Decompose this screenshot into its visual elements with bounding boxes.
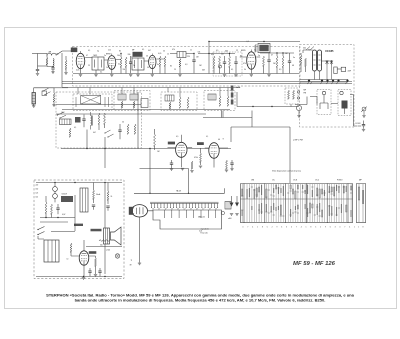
T1 ground wire xyxy=(95,70,97,74)
svg-text:47: 47 xyxy=(86,55,88,57)
V5 left parts xyxy=(300,55,302,64)
capacitor C1 xyxy=(51,68,54,69)
jack arrow 1 xyxy=(231,196,233,205)
svg-text:3: 3 xyxy=(286,227,287,229)
resistor R21b xyxy=(104,113,106,124)
svg-text:al giradischi: al giradischi xyxy=(201,229,210,231)
svg-text:1k: 1k xyxy=(167,54,169,56)
svg-text:0,1: 0,1 xyxy=(206,136,208,138)
svg-text:47k: 47k xyxy=(172,49,175,51)
resistor R31 xyxy=(51,204,53,214)
power amp dashed enclosure xyxy=(34,180,124,279)
V7 wires xyxy=(205,148,228,168)
coil L5 xyxy=(177,52,186,58)
svg-text:82: 82 xyxy=(240,56,242,58)
switch contacts S3 xyxy=(105,130,114,137)
resistor R22 xyxy=(127,124,129,134)
svg-text:39: 39 xyxy=(130,265,132,267)
svg-text:56: 56 xyxy=(146,56,148,58)
coil pack box D xyxy=(204,91,235,111)
dial lamp xyxy=(115,254,119,258)
filter cap C32 xyxy=(88,271,91,272)
bottom rail wire xyxy=(36,276,122,278)
svg-text:0,1: 0,1 xyxy=(247,41,249,43)
bus wire 2 xyxy=(62,81,352,83)
detector circles xyxy=(297,91,299,93)
rf choke L7 xyxy=(341,67,346,71)
svg-text:8: 8 xyxy=(310,227,311,229)
stage link wire xyxy=(73,51,294,61)
tube V6 EABC80 xyxy=(176,142,187,157)
svg-text:OC2: OC2 xyxy=(315,180,319,182)
svg-text:UCC85: UCC85 xyxy=(325,49,334,53)
svg-text:4k7: 4k7 xyxy=(93,132,96,134)
resistor R11 xyxy=(213,56,215,67)
eye dark cap xyxy=(129,207,133,215)
ground xyxy=(79,75,82,77)
vertical feeds to lower section xyxy=(140,149,189,194)
svg-text:4: 4 xyxy=(349,227,350,229)
svg-text:470k: 470k xyxy=(194,157,198,159)
coil L1 xyxy=(53,59,54,67)
svg-text:a600: a600 xyxy=(228,218,232,220)
coupling box xyxy=(334,67,337,74)
filter cap C33 xyxy=(98,271,101,272)
switch S2 xyxy=(58,112,67,118)
IF transformer T2 xyxy=(132,58,144,70)
wire rails xyxy=(40,218,75,223)
resistor R25 xyxy=(154,134,156,146)
ratio detector dashed box xyxy=(285,88,298,104)
svg-text:7: 7 xyxy=(296,227,297,229)
ferrite coil L2 xyxy=(32,93,35,105)
ground xyxy=(181,168,184,170)
dropper resistor Rd1 xyxy=(93,190,95,199)
tube top stubs xyxy=(81,50,252,56)
output tube V8 xyxy=(79,251,89,265)
svg-text:10: 10 xyxy=(67,259,69,261)
tube V3 xyxy=(149,55,156,68)
trimmer C22 xyxy=(82,119,85,120)
MF auxiliary box xyxy=(357,184,366,223)
svg-text:4: 4 xyxy=(252,227,253,229)
FM ground bus wire xyxy=(300,79,348,81)
svg-text:22: 22 xyxy=(236,50,238,52)
resistor R30 xyxy=(45,202,47,213)
svg-text:0,5: 0,5 xyxy=(176,136,178,138)
wire xyxy=(47,65,53,68)
tube V5 UCC85 twin triode xyxy=(313,50,317,71)
loudspeaker xyxy=(111,227,122,245)
svg-text:Viste disposizioni con lato: Viste disposizioni con lato di presa xyxy=(272,170,302,173)
svg-text:1: 1 xyxy=(306,227,307,229)
ground xyxy=(138,263,141,265)
svg-text:2k: 2k xyxy=(111,196,113,198)
resistor R26 xyxy=(191,161,193,169)
svg-text:47k: 47k xyxy=(211,54,214,56)
svg-text:3: 3 xyxy=(335,227,336,229)
svg-text:6: 6 xyxy=(281,227,282,229)
vertical feeds xyxy=(87,92,138,168)
wire to MF output xyxy=(337,68,341,70)
tube V7 EM80 label xyxy=(197,142,204,145)
IF output coil dark xyxy=(342,101,348,109)
psu dark label row xyxy=(74,224,83,226)
transformer wires xyxy=(38,232,75,240)
svg-text:9: 9 xyxy=(325,227,326,229)
FM coil box 2 xyxy=(338,90,351,116)
svg-text:0,5: 0,5 xyxy=(216,50,218,52)
svg-text:8: 8 xyxy=(363,227,364,229)
svg-text:0,05: 0,05 xyxy=(199,231,202,233)
oscillator coil xyxy=(91,116,92,126)
input tuned circuit xyxy=(46,56,48,58)
screen divider wire xyxy=(208,42,210,74)
svg-text:82: 82 xyxy=(119,51,121,53)
electrolytic capacitor pair xyxy=(53,187,58,192)
svg-text:a MF e FM: a MF e FM xyxy=(293,140,303,142)
svg-text:06: 06 xyxy=(218,139,220,141)
wafer inner contacts xyxy=(165,210,216,218)
svg-text:110: 110 xyxy=(36,197,39,199)
B+ bus wire xyxy=(73,73,299,75)
capacitor C5 xyxy=(129,62,132,63)
eye wires xyxy=(140,211,154,263)
svg-text:1n: 1n xyxy=(190,50,192,52)
variable capacitor C15 xyxy=(326,60,329,65)
wafer body outline xyxy=(153,210,222,229)
resistor R5 xyxy=(120,57,122,67)
output transformer label xyxy=(91,229,102,232)
svg-text:0,05: 0,05 xyxy=(158,53,161,55)
capacitor C20 xyxy=(362,125,365,126)
svg-text:330: 330 xyxy=(128,54,131,56)
tube V1 ECH81 label xyxy=(71,48,78,53)
IF transformer T3 xyxy=(258,44,270,53)
ground xyxy=(362,129,365,131)
V8 wires xyxy=(72,240,96,277)
svg-text:EF89: EF89 xyxy=(106,54,111,56)
svg-text:1n: 1n xyxy=(258,55,260,57)
resistor R21 xyxy=(98,113,100,124)
svg-text:6: 6 xyxy=(330,227,331,229)
screen resistor R33 xyxy=(70,243,72,252)
ground xyxy=(82,278,85,280)
capacitor C27 xyxy=(230,163,233,164)
AVC stack resistor Rb xyxy=(231,93,234,98)
comb contact row xyxy=(150,202,219,207)
antenna input wire xyxy=(32,53,47,55)
capacitor C13 xyxy=(288,61,291,62)
svg-text:Fono 0,05: Fono 0,05 xyxy=(201,233,208,235)
bus drop wires xyxy=(78,88,228,98)
coil pack box B xyxy=(114,91,150,111)
svg-text:160: 160 xyxy=(36,189,39,191)
output transformer xyxy=(104,228,110,244)
connector box xyxy=(225,202,231,210)
svg-text:47k: 47k xyxy=(243,63,246,65)
FM coil box 1 xyxy=(317,90,331,115)
svg-text:0: 0 xyxy=(291,227,292,229)
box A transformer xyxy=(81,96,101,105)
detector resistor R14 xyxy=(263,56,265,66)
bus junction blobs xyxy=(308,80,310,82)
capacitor C12 xyxy=(267,60,270,61)
svg-text:7: 7 xyxy=(247,227,248,229)
svg-text:MF1: MF1 xyxy=(94,55,98,57)
resistor R6 xyxy=(125,57,127,67)
psu small caps xyxy=(92,205,95,206)
svg-text:banda onde ultracorte in modul: banda onde ultracorte in modulazione di … xyxy=(75,297,326,302)
svg-text:2: 2 xyxy=(320,227,321,229)
filter choke transformer xyxy=(80,188,88,212)
oscillator dashed enclosure xyxy=(56,92,142,148)
tube V6 EABC80 label xyxy=(168,142,175,145)
vertical feed wires xyxy=(75,183,105,275)
switch contact strips xyxy=(241,184,243,222)
svg-text:0,3: 0,3 xyxy=(185,64,187,66)
svg-text:25: 25 xyxy=(174,69,176,71)
svg-text:10k: 10k xyxy=(117,55,120,57)
capacitor C23 xyxy=(118,130,121,131)
coil pack box A xyxy=(73,94,112,111)
svg-text:1: 1 xyxy=(358,227,359,229)
resistor R10 xyxy=(179,59,181,67)
svg-text:2k2: 2k2 xyxy=(221,54,224,56)
table mid line xyxy=(241,198,353,200)
resistor R13b xyxy=(255,44,257,52)
pickup trimmer xyxy=(362,107,366,111)
svg-text:5: 5 xyxy=(267,227,268,229)
svg-text:3x47k: 3x47k xyxy=(236,87,240,89)
svg-text:500: 500 xyxy=(100,244,103,246)
svg-text:TA 58: TA 58 xyxy=(176,190,181,193)
grid resistor R3 xyxy=(65,60,67,69)
svg-text:2: 2 xyxy=(272,227,273,229)
wave switch arm xyxy=(58,51,73,54)
svg-text:47: 47 xyxy=(271,55,273,57)
diode circle xyxy=(218,65,221,68)
secondary resistor R35 xyxy=(99,240,109,242)
resistor R1 xyxy=(46,58,48,65)
svg-text:25: 25 xyxy=(88,65,90,67)
phono takeoff wire xyxy=(350,95,358,127)
svg-text:5G019: 5G019 xyxy=(62,194,67,196)
switch S1 xyxy=(43,88,51,94)
oscillator trimmer circle xyxy=(296,105,301,110)
padder box xyxy=(42,91,47,96)
svg-text:0,1: 0,1 xyxy=(74,127,76,129)
svg-text:1k: 1k xyxy=(106,67,108,69)
V1 cathode wire xyxy=(80,69,82,74)
power transformer xyxy=(44,240,59,262)
svg-text:MF: MF xyxy=(132,50,134,52)
svg-text:MF 59 - MF 126: MF 59 - MF 126 xyxy=(293,261,336,267)
dropper resistor Rd2 xyxy=(107,191,109,200)
svg-text:FONO: FONO xyxy=(356,123,362,125)
svg-text:68: 68 xyxy=(292,65,294,67)
svg-text:a 600: a 600 xyxy=(106,250,110,252)
box feed wire xyxy=(290,104,292,107)
capacitor C9 xyxy=(192,60,195,61)
bottom bus wire xyxy=(61,148,231,150)
antenna series drop wire xyxy=(37,54,39,67)
dark trimmer block xyxy=(75,117,81,123)
svg-text:0: 0 xyxy=(340,227,341,229)
svg-text:3n: 3n xyxy=(293,57,295,59)
svg-text:4k7: 4k7 xyxy=(148,50,151,52)
AVC stack resistor Rc xyxy=(231,100,234,105)
svg-text:0,1: 0,1 xyxy=(142,49,144,51)
svg-text:6k8: 6k8 xyxy=(202,70,205,72)
wire corner to switch table xyxy=(231,118,290,184)
svg-text:82: 82 xyxy=(170,66,172,68)
svg-text:50: 50 xyxy=(147,67,149,69)
svg-text:0,1: 0,1 xyxy=(100,72,102,74)
output tube V8 label xyxy=(89,251,97,254)
mid row wires xyxy=(56,105,230,115)
svg-text:EF85: EF85 xyxy=(241,50,246,52)
junction dots xyxy=(120,53,121,54)
resistor R12 xyxy=(219,56,221,67)
svg-text:10k: 10k xyxy=(198,52,201,54)
svg-text:220: 220 xyxy=(187,56,190,58)
AM IF chain dashed enclosure xyxy=(73,47,301,87)
resistor R16 xyxy=(282,56,284,67)
tube V1 ECH81 xyxy=(76,53,85,68)
AVC stack resistor Ra xyxy=(231,86,234,91)
mains switch xyxy=(38,227,45,235)
link wires xyxy=(295,97,338,105)
V5 wires xyxy=(303,50,333,80)
svg-text:220: 220 xyxy=(36,185,39,187)
tube V7 EM80 xyxy=(209,143,219,159)
filter choke xyxy=(61,196,73,202)
svg-text:0,1: 0,1 xyxy=(118,64,120,66)
svg-text:0,1: 0,1 xyxy=(231,69,233,71)
resistor R9 xyxy=(164,56,166,66)
tuning indicator tube horizontal xyxy=(132,205,148,217)
switch table frame xyxy=(241,184,353,223)
svg-text:0,1: 0,1 xyxy=(254,50,256,52)
resistor R13 xyxy=(229,56,231,67)
svg-text:300: 300 xyxy=(303,48,306,50)
capacitor C11 xyxy=(234,62,237,63)
resistor R2 xyxy=(53,93,55,102)
cathode resistor R34 xyxy=(95,258,97,266)
capacitor C30 xyxy=(56,208,59,209)
resistor R27 xyxy=(226,160,228,169)
detector to MF wire xyxy=(203,111,252,118)
bus wire 3 xyxy=(62,83,352,85)
svg-text:5k: 5k xyxy=(244,69,246,71)
svg-text:75: 75 xyxy=(308,49,310,51)
IF transformer T2 dark label xyxy=(133,52,143,57)
coil pack box C xyxy=(161,92,197,111)
wafer inner circle xyxy=(221,211,224,214)
ground hatches xyxy=(307,83,347,85)
resistor R15 xyxy=(276,56,278,67)
audio takeoff wire xyxy=(237,92,299,107)
svg-text:4u: 4u xyxy=(157,64,159,66)
resistor R18b xyxy=(293,90,295,99)
svg-text:OM: OM xyxy=(251,180,254,182)
svg-text:6k8: 6k8 xyxy=(225,51,228,53)
svg-text:2n: 2n xyxy=(133,65,135,67)
svg-text:8: 8 xyxy=(262,227,263,229)
svg-text:50: 50 xyxy=(122,122,124,124)
svg-text:1: 1 xyxy=(354,227,355,229)
padder capacitor bank xyxy=(60,119,72,125)
small parts between tubes xyxy=(200,153,202,162)
svg-text:1: 1 xyxy=(257,227,258,229)
group divider lines xyxy=(244,184,348,223)
svg-text:2n: 2n xyxy=(104,55,106,57)
IF transformer T1 xyxy=(92,57,104,70)
capacitor C2 xyxy=(37,66,39,69)
left feed wire xyxy=(61,53,63,87)
svg-text:0,5: 0,5 xyxy=(279,69,281,71)
svg-text:4: 4 xyxy=(301,227,302,229)
svg-text:0,05: 0,05 xyxy=(76,70,79,72)
resistor R23 xyxy=(134,124,136,134)
resistor R18a xyxy=(288,90,290,99)
jack arrow 2 xyxy=(236,196,238,205)
svg-text:aMF: aMF xyxy=(348,71,351,73)
svg-text:5p: 5p xyxy=(97,51,99,53)
detector inner dashed box xyxy=(213,52,242,76)
svg-text:5: 5 xyxy=(315,227,316,229)
wire xyxy=(34,87,55,89)
top B+ feed wire xyxy=(209,41,300,43)
svg-text:FONO: FONO xyxy=(337,180,343,182)
capacitor C26 xyxy=(170,163,173,164)
svg-text:2n2: 2n2 xyxy=(108,50,111,52)
heater bus wire xyxy=(62,87,240,89)
ground xyxy=(32,106,35,108)
top rail wire xyxy=(36,182,122,184)
switch top wire xyxy=(134,188,225,193)
sec wire xyxy=(86,246,122,248)
capacitor C10 xyxy=(223,62,226,63)
svg-text:9: 9 xyxy=(276,227,277,229)
V6 wires xyxy=(168,135,193,168)
ground xyxy=(51,72,54,74)
svg-text:0: 0 xyxy=(243,227,244,229)
svg-text:125: 125 xyxy=(36,193,39,195)
resistor R20 xyxy=(69,128,71,137)
svg-text:7: 7 xyxy=(344,227,345,229)
variable capacitor C16 xyxy=(330,60,333,65)
FM tuner dashed enclosure xyxy=(300,45,355,128)
wire xyxy=(38,65,48,67)
resistor R8 xyxy=(159,56,161,66)
svg-text:0,1: 0,1 xyxy=(88,50,90,52)
svg-text:50: 50 xyxy=(163,51,165,53)
wire xyxy=(54,87,68,89)
